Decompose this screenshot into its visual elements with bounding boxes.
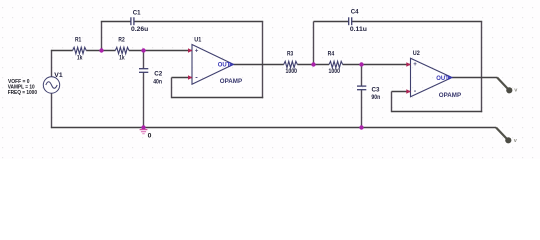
wire: C2 bottom lead down to ground rail bbox=[143, 72, 145, 127]
svg-text:0.26u: 0.26u bbox=[131, 26, 148, 33]
wire: C4 right vertical drop through U2 output down to feedback bbox=[481, 22, 483, 113]
svg-text:R4: R4 bbox=[328, 50, 335, 57]
op-amp U1 bbox=[188, 45, 243, 86]
resistor R3 bbox=[284, 61, 298, 67]
svg-text:OPAMP: OPAMP bbox=[220, 78, 243, 85]
svg-text:90n: 90n bbox=[371, 94, 380, 101]
wire: C2 tap down from stage1 net bbox=[143, 51, 145, 69]
wire: V1 bottom lead down to ground rail bbox=[51, 93, 53, 128]
capacitor C3 bbox=[357, 86, 366, 90]
wire: V1 top lead up to input net bbox=[51, 50, 53, 77]
wire: C3 bottom lead down to ground rail bbox=[361, 90, 363, 128]
wire: C1 top horizontal right segment to output drop bbox=[134, 21, 263, 23]
svg-text:R1: R1 bbox=[75, 37, 81, 44]
wire: input net from V1 to R1 bbox=[51, 50, 73, 52]
svg-text:1000: 1000 bbox=[329, 68, 341, 75]
U1 pin arrow: non-inverting input bbox=[188, 48, 192, 53]
U2 output pin wedge bbox=[448, 75, 453, 80]
svg-text:1k: 1k bbox=[119, 55, 125, 62]
wire: U1 output to R3 bbox=[234, 64, 284, 66]
svg-text:C2: C2 bbox=[154, 71, 162, 78]
svg-text:U1: U1 bbox=[194, 37, 201, 44]
wire: R1 right to R2 left (node with C1 tap) bbox=[86, 50, 115, 52]
wire: R2 right to U1 plus input (node with C2 tap) bbox=[129, 50, 192, 52]
svg-text:C3: C3 bbox=[372, 86, 380, 93]
wire: C4 top horizontal left segment bbox=[314, 21, 349, 23]
junction node: R1/R2/C1 bbox=[99, 48, 103, 52]
resistor R4 bbox=[329, 61, 343, 67]
wire: U2 inverting input feedback stub bbox=[392, 91, 411, 93]
svg-text:C1: C1 bbox=[133, 9, 141, 16]
capacitor C2 bbox=[139, 69, 148, 73]
voltage probe marker at U2 output bbox=[497, 77, 518, 93]
ground symbol 0 bbox=[140, 130, 148, 134]
capacitor C1 bbox=[131, 17, 134, 25]
svg-text:FREQ = 1000: FREQ = 1000 bbox=[8, 90, 38, 96]
resistor R1 bbox=[73, 47, 87, 53]
svg-text:R2: R2 bbox=[118, 37, 124, 44]
svg-text:U2: U2 bbox=[413, 50, 420, 57]
wire: U1 feedback left vertical bbox=[171, 78, 173, 99]
svg-text:OUT: OUT bbox=[218, 62, 231, 69]
voltage probe marker at ground rail bbox=[496, 128, 518, 145]
wire: U1 feedback bottom horizontal bbox=[172, 97, 264, 99]
wire: U2 output to probe bbox=[452, 77, 497, 79]
U2 pin arrow: non-inverting input bbox=[406, 62, 411, 67]
resistor R2 bbox=[115, 47, 129, 53]
wire: R3 right to R4 left (node with C4 tap) bbox=[297, 64, 329, 66]
wire: ground rail along bottom bbox=[51, 127, 496, 129]
svg-text:+: + bbox=[413, 61, 417, 68]
svg-text:1k: 1k bbox=[77, 55, 83, 62]
wire: U2 feedback bottom horizontal bbox=[392, 111, 483, 113]
junction node: C2 at ground rail bbox=[141, 125, 145, 129]
svg-text:V1: V1 bbox=[54, 72, 63, 79]
U1 pin arrow: inverting input bbox=[188, 75, 192, 80]
svg-text:+: + bbox=[195, 47, 199, 54]
U1 output pin wedge bbox=[230, 62, 235, 67]
wire: U2 feedback left vertical bbox=[391, 92, 393, 113]
voltage source V1 bbox=[43, 77, 59, 93]
junction node: R3/R4/C4 bbox=[311, 62, 315, 66]
wire: R4 right to U2 plus input (node with C3 tap) bbox=[343, 64, 411, 66]
wire: C1 left vertical riser from R1/R2 node bbox=[101, 22, 103, 51]
wire: C1 top horizontal left segment bbox=[101, 21, 131, 23]
svg-text:40n: 40n bbox=[153, 78, 162, 85]
junction node: C3 at ground rail bbox=[359, 125, 363, 129]
junction node: R2/C2/U1+ bbox=[141, 48, 145, 52]
junction node: R4/C3/U2+ bbox=[359, 62, 363, 66]
op-amp U2 bbox=[406, 58, 461, 99]
capacitor C4 bbox=[349, 17, 352, 25]
svg-text:OUT: OUT bbox=[436, 75, 449, 82]
U2 pin arrow: inverting input bbox=[406, 89, 411, 94]
svg-text:R3: R3 bbox=[287, 50, 293, 57]
wire: C4 top horizontal right segment to output drop bbox=[352, 21, 483, 23]
wire: C4 left vertical riser from R3/R4 node bbox=[313, 22, 315, 65]
svg-text:0.11u: 0.11u bbox=[350, 26, 367, 33]
svg-text:1000: 1000 bbox=[286, 68, 298, 75]
svg-text:C4: C4 bbox=[351, 8, 359, 15]
svg-text:0: 0 bbox=[148, 132, 152, 139]
wire: C1 right vertical drop through U1 output down to feedback bbox=[262, 22, 264, 99]
svg-text:OPAMP: OPAMP bbox=[439, 92, 462, 99]
wire: C3 tap down from stage2 net bbox=[361, 65, 363, 87]
wire: U1 inverting input feedback stub bbox=[172, 77, 193, 79]
